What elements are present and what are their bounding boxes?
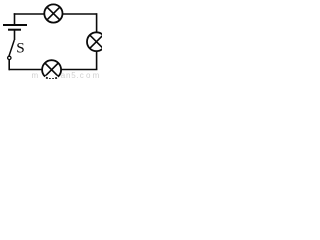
wire right side (x=96.6): [96, 13, 98, 69]
lamp L1 top: circle: [44, 4, 62, 22]
lamp L1 X: [47, 7, 60, 20]
battery long plate: [3, 24, 27, 26]
battery short plate: [8, 29, 21, 31]
svg-text:an5.: an5.: [61, 71, 80, 79]
lamp L3 X: [45, 63, 58, 76]
wire battery bottom lead to switch: [14, 30, 16, 40]
switch terminal circle: [8, 56, 11, 59]
svg-text:m: m: [32, 71, 39, 79]
svg-text:com: com: [80, 71, 102, 79]
wire battery top lead: [14, 13, 16, 25]
lamp L2 right: circle: [87, 32, 106, 51]
wire bottom (y=69.5): [9, 69, 97, 71]
switch S blade: [9, 40, 14, 56]
wire top (y=14, x 14.5 to 96.6): [14, 13, 97, 15]
lamp L3 faded bottom arc (white dashes): [45, 77, 58, 79]
lamp L2 X: [90, 35, 103, 48]
wire left lower vertical (x=9.2): [8, 60, 10, 71]
lamp L3 bottom: circle: [42, 60, 61, 79]
svg-text:S: S: [16, 40, 24, 57]
